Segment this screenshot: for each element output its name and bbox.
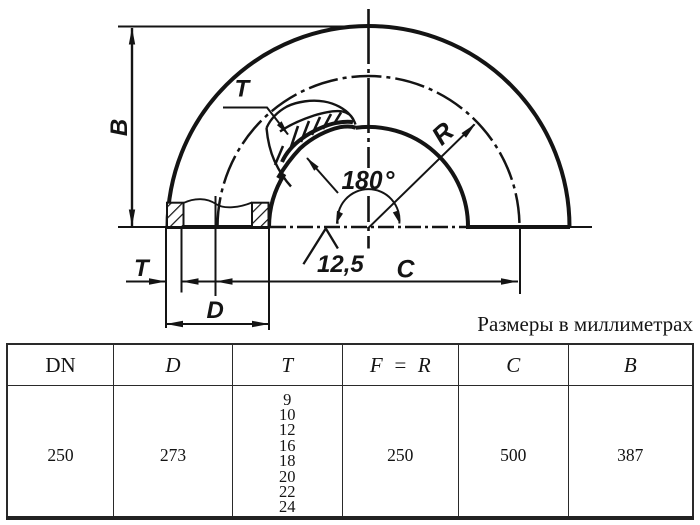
C extension right x520 [519,225,521,294]
R radius line [369,124,475,227]
roughness mark [303,229,338,265]
180deg angle arc [337,189,399,224]
angle arrow left [336,211,343,224]
hatch stroke 1 [290,126,298,150]
B dimension line [131,28,133,226]
hatch stroke bottom sliver [275,146,283,165]
hatch stroke 4 [323,114,331,129]
lens outline bottom-left [267,128,292,187]
baseline dash-dot middle [270,226,467,229]
break wavy line [184,199,253,207]
wall inner arrow [307,158,338,193]
T/C extension line x166 [165,227,167,328]
T dim line left part [126,281,166,283]
inner arc right piece [356,127,469,227]
baseline thin right extension [570,226,592,228]
wall outer edge arc [280,111,354,131]
dimensions table [6,343,694,520]
labels [106,76,460,325]
baseline thick right (end face) [466,225,570,229]
top tangent extension line [118,26,374,28]
wall bore edge arc (thick) [282,122,353,162]
svg-text:R: R [426,116,460,151]
svg-text:D: D [207,297,224,324]
baseline thick left (end face) [166,225,271,229]
hatch stroke 2 [301,121,309,142]
outer arc [168,26,570,227]
D arrow right [252,321,269,327]
R arrowhead [462,123,476,137]
caption [477,312,693,337]
D dim line [166,323,269,325]
lens outline top [267,101,356,128]
B arrow top [129,28,135,45]
T leader arrowhead [277,121,289,135]
rotated wall section (lens) [267,101,356,187]
D arrow left [166,321,183,327]
T extension x181.5 [181,227,183,293]
baseline thin left (B extension) [118,226,167,228]
wall inner arrowhead [307,158,319,171]
T/C dim line [182,281,519,283]
hatch stroke 3 [312,117,320,135]
T leader (top) [223,108,288,135]
svg-text:°: ° [384,165,395,195]
left end-face left wall hatched [167,203,184,227]
T arrow right (tip 181.5 pointing left) [182,278,199,284]
bore bottom arc (thick) [278,127,356,178]
C arrow left (tip 215.5) [216,278,233,284]
B arrow bottom [129,210,135,227]
angle arrow right [393,210,400,223]
C arrow right (tip 518) [501,278,518,284]
vertical centerline upper [367,9,370,168]
svg-text:T: T [235,76,252,103]
vertical centerline lower [367,196,370,249]
C extension x215.5 [215,196,217,296]
center dash-dot arc [218,76,520,227]
hatch stroke 5 [334,113,341,125]
T arrow (tip at 166) [149,278,166,284]
svg-text:C: C [397,256,416,284]
svg-text:180: 180 [342,165,384,195]
D extension x269 [268,227,270,330]
svg-text:12,5: 12,5 [317,251,364,278]
svg-text:T: T [134,255,151,282]
svg-text:B: B [106,119,133,136]
inner arc left piece [269,174,285,227]
left end-face right wall hatched [252,203,269,227]
